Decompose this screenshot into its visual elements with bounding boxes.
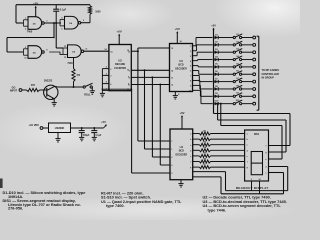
ground pin 8 of U3	[174, 92, 176, 96]
terminal GO input	[19, 89, 22, 92]
svg-text:S1-S10 incl. — Spst switch.: S1-S10 incl. — Spst switch.	[101, 195, 151, 199]
svg-text:+5V: +5V	[33, 2, 38, 6]
svg-text:6: 6	[83, 20, 84, 22]
wire BCD bus vertical C	[151, 77, 153, 157]
wire R1 to display segment	[211, 133, 245, 135]
diode D2	[215, 43, 219, 46]
svg-text:12: 12	[64, 46, 66, 48]
svg-text:1000: 1000	[95, 10, 101, 13]
label +5V output	[104, 125, 107, 128]
wire bus vertical E	[131, 89, 133, 173]
svg-text:6: 6	[110, 84, 111, 86]
wire wrap bottom 1	[193, 171, 226, 173]
capacitor C1 0.1uF	[55, 5, 57, 10]
node QA tap	[137, 50, 139, 52]
+5V supply pin 5 of U2	[118, 35, 120, 44]
ground cap2	[92, 136, 97, 138]
node QD tap	[159, 84, 161, 86]
svg-text:READOUT DISPLAY: READOUT DISPLAY	[236, 186, 269, 190]
wire junction to switch ROLL	[74, 86, 84, 88]
svg-text:2N2222: 2N2222	[44, 79, 53, 82]
svg-text:U3: U3	[179, 59, 183, 63]
node bus junction row 3	[213, 51, 215, 53]
resistor R2 220 ohm	[193, 138, 200, 140]
transistor Q1 2N2222	[44, 85, 58, 99]
wire collector up to junction	[54, 86, 57, 88]
wire R7 to display segment	[211, 166, 245, 168]
node bus junction row 10	[213, 103, 215, 105]
svg-text:14: 14	[259, 178, 261, 181]
wire gate U1B output to resistor node	[81, 22, 90, 24]
svg-text:DECODER: DECODER	[176, 154, 188, 156]
svg-text:DECODER: DECODER	[175, 68, 187, 70]
node bus junction row 1	[213, 37, 215, 39]
terminal output 5	[253, 66, 256, 69]
resistor R 1000	[88, 6, 91, 14]
svg-text:+5V: +5V	[179, 111, 184, 115]
wire R6 to display segment	[211, 161, 245, 163]
svg-text:6: 6	[190, 71, 191, 73]
wire BCD bus vertical B	[144, 70, 146, 149]
switch S6	[233, 73, 235, 75]
wire bus A into U4	[138, 140, 170, 142]
svg-text:14: 14	[171, 69, 173, 72]
svg-text:CONTROLLER: CONTROLLER	[262, 73, 280, 76]
wire diode D8 to switch S8	[218, 88, 233, 90]
svg-text:1: 1	[190, 46, 191, 48]
page artifact mark	[0, 179, 3, 189]
svg-text:3: 3	[46, 20, 47, 22]
wire R3 to display segment	[211, 144, 245, 146]
wire switch S8 to terminal	[242, 88, 253, 90]
node QC tap	[151, 76, 153, 78]
svg-text:11: 11	[85, 49, 87, 51]
wire U3 output 3 fanout	[193, 55, 198, 57]
svg-text:e: e	[265, 159, 266, 161]
wire gate U1A output to gate U1B input	[44, 22, 61, 24]
wire U3 output 10 fanout	[193, 89, 201, 91]
svg-text:0.1µF: 0.1µF	[95, 135, 102, 137]
wire U2 output QB to U3	[131, 69, 169, 71]
svg-text:16: 16	[180, 41, 182, 43]
wire gate U1C output to gate U1D lower input	[49, 52, 63, 54]
diode D6	[215, 73, 219, 76]
diode D8	[215, 87, 219, 90]
svg-text:BCD: BCD	[178, 64, 183, 67]
display DIS1 bottom pins	[251, 181, 253, 191]
svg-text:LM309K: LM309K	[55, 127, 65, 130]
svg-text:2: 2	[25, 29, 26, 31]
svg-text:BCD: BCD	[179, 150, 184, 153]
display DIS1 readout	[245, 130, 269, 181]
svg-text:COUNTER: COUNTER	[114, 67, 126, 70]
op-amp U1B (NAND gate 1/4 7400)	[65, 16, 79, 29]
wire BCD bus vertical A	[137, 51, 139, 141]
resistor 470	[72, 69, 75, 82]
wire diode D2 to switch S2	[218, 44, 233, 46]
wire switch S9 to terminal	[242, 95, 253, 97]
svg-text:7: 7	[171, 141, 172, 143]
wire regulator output	[71, 127, 104, 129]
wire feedback from node A to gate U1C	[53, 23, 55, 38]
switch S4	[233, 58, 235, 60]
node cap2 junction	[93, 127, 95, 129]
wire U2 bottom pin to U4 bus	[102, 88, 132, 90]
wire diode D5 to switch S5	[218, 66, 233, 68]
svg-text:c: c	[190, 145, 191, 147]
node cap1 junction	[81, 127, 83, 129]
wire wrap top 1 from +5V bus to display pin	[214, 113, 291, 115]
wire base resistor to transistor Q1	[40, 89, 47, 91]
svg-text:7: 7	[190, 76, 191, 78]
wire R5 to display segment	[211, 155, 245, 157]
wire bus D into U4	[160, 164, 170, 166]
svg-text:12: 12	[127, 70, 129, 72]
ground regulator case	[57, 133, 59, 139]
svg-text:+5V: +5V	[211, 25, 216, 28]
node bus junction row 2	[213, 44, 215, 46]
svg-text:15: 15	[171, 48, 173, 50]
wire switch S6 to terminal	[242, 73, 253, 75]
op-amp U3 BCD-to-decimal decoder IC	[170, 44, 193, 92]
svg-text:+10 VDC: +10 VDC	[29, 123, 40, 127]
svg-text:1: 1	[171, 149, 172, 151]
terminal output 2	[253, 43, 256, 46]
node bus junction row 7	[213, 81, 215, 83]
svg-text:12: 12	[171, 85, 173, 87]
wire R4 to display segment	[211, 149, 245, 151]
wire switch S1 to terminal	[242, 37, 253, 39]
wire U3 output 4 fanout	[193, 60, 198, 62]
terminal output 9	[253, 95, 256, 98]
terminal output 3	[253, 51, 256, 54]
wire U2 reset pin bus	[101, 69, 103, 92]
diode D5	[215, 65, 219, 68]
svg-text:4: 4	[190, 60, 191, 63]
switch S1	[233, 36, 235, 38]
wire switch S10 to terminal	[242, 103, 253, 105]
wire wrap bottom 2	[193, 176, 221, 178]
svg-text:3: 3	[190, 56, 191, 58]
ground pin 8 of U4	[180, 180, 182, 184]
svg-text:9: 9	[25, 47, 26, 49]
op-amp U2 decade counter IC	[109, 45, 131, 91]
wire U2 output QC to U3	[131, 76, 169, 78]
wire wrap top 3	[220, 103, 222, 105]
wire diode D6 to switch S6	[218, 73, 233, 75]
ground switch ROLL	[91, 87, 93, 91]
svg-text:TO DP GAMES: TO DP GAMES	[262, 69, 280, 72]
svg-text:8: 8	[46, 49, 47, 51]
svg-text:13: 13	[171, 78, 173, 80]
svg-text:8: 8	[178, 94, 179, 96]
svg-text:type 7400.: type 7400.	[106, 204, 125, 208]
diode D4	[215, 58, 219, 61]
svg-text:+5V: +5V	[175, 27, 180, 31]
svg-text:6: 6	[106, 82, 107, 84]
svg-text:0.1µF: 0.1µF	[60, 9, 67, 12]
wire U3 output 2 fanout	[193, 50, 197, 52]
svg-text:7: 7	[110, 91, 111, 93]
+5V supply pin 16 of U4	[181, 117, 183, 129]
svg-text:+5V: +5V	[117, 29, 122, 33]
wire U3 output 7 fanout	[193, 75, 200, 77]
svg-text:+5V: +5V	[101, 120, 106, 124]
svg-text:5: 5	[61, 28, 62, 30]
gate U1A pin 14 +5V	[35, 7, 37, 16]
wire switch S5 to terminal	[242, 66, 253, 68]
svg-text:14: 14	[110, 50, 112, 53]
op-amp U1D (NAND gate 1/4 7400)	[68, 45, 82, 58]
node bus junction row 9	[213, 95, 215, 97]
svg-text:type 7446.: type 7446.	[208, 209, 227, 213]
svg-text:e: e	[190, 156, 191, 158]
svg-text:DECADE: DECADE	[115, 63, 126, 66]
terminal output 7	[253, 80, 256, 83]
svg-text:7400: 7400	[27, 31, 33, 34]
op-amp U1C (NAND gate 1/4 7400)	[28, 46, 42, 59]
capacitor C2 500uF	[81, 128, 83, 131]
svg-text:10: 10	[24, 58, 26, 60]
node bus junction row 8	[213, 88, 215, 90]
diode D7	[215, 80, 219, 83]
display DIS1 digit figure	[251, 152, 262, 175]
node bus junction row 4	[213, 59, 215, 61]
capacitor C3 0.1uF	[93, 128, 95, 131]
svg-text:2: 2	[106, 67, 107, 69]
svg-text:INPUT: INPUT	[10, 90, 18, 93]
resistor R6 220 ohm	[193, 161, 200, 163]
svg-text:d: d	[190, 150, 191, 152]
svg-text:2: 2	[190, 51, 191, 53]
wire U2 output QD to U3	[131, 84, 169, 86]
svg-text:3: 3	[251, 179, 252, 181]
wire U2 output QA jog	[131, 50, 138, 52]
wire U3 output 6 fanout	[193, 70, 199, 72]
node roll pull-up from gate U1D	[73, 58, 75, 69]
svg-text:8: 8	[190, 81, 191, 83]
diode D3	[215, 51, 219, 54]
op-amp LM309K voltage regulator	[49, 123, 71, 133]
wire BCD bus vertical D	[159, 85, 161, 166]
diode D10	[215, 102, 219, 105]
wire left feedback drop to gate U1A input	[15, 5, 17, 23]
wire R2 to display segment	[211, 138, 245, 140]
terminal output 1	[253, 36, 256, 39]
svg-text:1: 1	[25, 18, 26, 20]
wire diode D1 to switch S1	[218, 37, 233, 39]
node bus junction row 6	[213, 73, 215, 75]
svg-text:g: g	[190, 167, 191, 169]
svg-text:U4: U4	[180, 145, 184, 149]
wire diode D9 to switch S9	[218, 95, 233, 97]
svg-text:276-056.: 276-056.	[8, 207, 23, 211]
svg-text:3: 3	[106, 73, 107, 75]
diode D1	[215, 36, 219, 39]
switch S7	[233, 81, 235, 83]
svg-text:c: c	[265, 173, 266, 175]
wire diode D7 to switch S7	[218, 81, 233, 83]
svg-text:500µF: 500µF	[83, 135, 90, 137]
terminal output 6	[253, 73, 256, 76]
svg-text:14: 14	[127, 49, 129, 52]
op-amp U1A (NAND gate 1/4 7400)	[28, 17, 42, 30]
svg-text:DIS1: DIS1	[254, 134, 260, 136]
svg-text:c: c	[247, 145, 248, 147]
ground U2 reset bus	[101, 91, 103, 93]
wire top feedback rail	[16, 4, 90, 6]
resistor R3 220 ohm	[193, 144, 200, 146]
wire bus C into U4	[152, 156, 170, 158]
wire U3 output 5 fanout	[193, 65, 199, 67]
switch S8	[233, 88, 235, 90]
svg-text:2: 2	[110, 69, 111, 71]
node collector junction	[73, 86, 75, 88]
node bus junction row 5	[213, 66, 215, 68]
wire bus B into U4	[145, 148, 171, 150]
node A-out junction	[53, 22, 55, 24]
switch S3	[233, 51, 235, 53]
svg-text:8: 8	[129, 78, 130, 80]
svg-text:8: 8	[128, 83, 129, 85]
resistor R1 220 ohm	[193, 133, 200, 135]
wire +5V diode bus vertical	[213, 29, 215, 114]
wire switch S7 to terminal	[242, 81, 253, 83]
switch S11 ROLL	[83, 86, 85, 88]
wire gate U1D output to U2 clock pin 14	[84, 50, 109, 52]
wire diode D4 to switch S4	[218, 59, 233, 61]
wire GO input to base resistor	[22, 89, 27, 91]
node feedback corner	[53, 37, 54, 38]
svg-text:3: 3	[110, 76, 111, 78]
wire switch S2 to terminal	[242, 44, 253, 46]
svg-text:9: 9	[190, 86, 191, 88]
+5V supply pin 16 of U3	[176, 33, 178, 44]
svg-text:11: 11	[127, 89, 129, 91]
svg-text:13: 13	[64, 57, 66, 59]
resistor 47K base	[27, 88, 40, 91]
svg-text:ROLL: ROLL	[84, 94, 91, 97]
wire switch S3 to terminal	[242, 51, 253, 53]
wire switch S4 to terminal	[242, 59, 253, 61]
resistor R4 220 ohm	[193, 149, 200, 151]
wire diode D10 to switch S10	[218, 103, 233, 105]
switch S2	[233, 44, 235, 46]
wire U3 output 8 fanout	[193, 79, 200, 81]
op-amp U4 BCD-to-7-segment decoder IC	[170, 129, 193, 180]
svg-text:e: e	[247, 156, 248, 158]
wire diode D3 to switch S3	[218, 51, 233, 53]
ground cap1	[79, 136, 84, 138]
svg-text:10: 10	[189, 90, 191, 92]
wire wrap top 2	[217, 103, 219, 105]
diode D9	[215, 95, 219, 98]
wire bus E into U4	[132, 172, 170, 174]
svg-text:9: 9	[129, 71, 130, 73]
resistor R7 220 ohm	[193, 166, 200, 168]
switch S9	[233, 95, 235, 97]
terminal output 10	[253, 102, 256, 105]
svg-text:U2: U2	[118, 58, 122, 62]
svg-text:6: 6	[171, 165, 172, 167]
svg-text:1N914A.: 1N914A.	[8, 195, 23, 199]
node QB tap	[144, 69, 146, 71]
svg-text:5: 5	[190, 66, 191, 68]
svg-text:9: 9	[128, 76, 129, 78]
switch S10	[233, 103, 235, 105]
terminal output 8	[253, 88, 256, 91]
svg-text:2: 2	[171, 157, 172, 159]
svg-text:47K: 47K	[31, 84, 36, 87]
switch S5	[233, 66, 235, 68]
resistor R5 220 ohm	[193, 155, 200, 157]
wire U3 output 1 fanout	[193, 45, 197, 47]
terminal output 4	[253, 58, 256, 61]
terminal +10 VDC input	[40, 127, 43, 130]
wire U3 output 9 fanout	[193, 84, 201, 86]
ground emitter	[53, 99, 55, 103]
svg-text:7400: 7400	[67, 62, 73, 65]
wire node A down to gate U1D upper input	[55, 23, 57, 48]
wire input to regulator	[43, 127, 49, 129]
bracket output group	[258, 36, 260, 110]
svg-text:5: 5	[171, 173, 172, 175]
svg-text:IN GROUP: IN GROUP	[262, 76, 275, 79]
